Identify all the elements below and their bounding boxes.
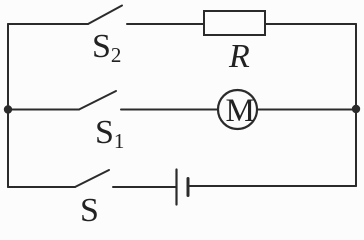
wire bottom-right segment xyxy=(188,185,356,187)
wire bottom-middle segment xyxy=(113,186,176,188)
svg-text:S2: S2 xyxy=(92,28,121,67)
resistor R1 box xyxy=(204,11,265,35)
battery B1 long plate xyxy=(175,170,177,205)
battery B1 short plate xyxy=(187,179,190,196)
wire top-middle segment xyxy=(127,23,204,25)
switch S1 blade xyxy=(79,91,116,110)
wire left vertical xyxy=(7,24,9,187)
svg-text:S: S xyxy=(80,192,99,229)
wire top-left segment xyxy=(8,23,88,25)
wire middle-middle segment xyxy=(121,109,218,111)
node right junction xyxy=(352,105,360,113)
motor M1 circle xyxy=(218,90,257,129)
wire top-right segment xyxy=(265,23,356,25)
wire middle-left segment xyxy=(8,109,79,111)
node left junction xyxy=(4,105,12,113)
switch S blade xyxy=(75,170,109,187)
svg-text:M: M xyxy=(226,93,255,129)
wire middle-right segment xyxy=(257,109,356,111)
wire right vertical xyxy=(355,24,357,186)
svg-text:S1: S1 xyxy=(95,114,124,153)
switch S2 blade xyxy=(88,6,122,25)
wire bottom-left segment xyxy=(8,186,75,188)
svg-text:R: R xyxy=(228,38,250,75)
